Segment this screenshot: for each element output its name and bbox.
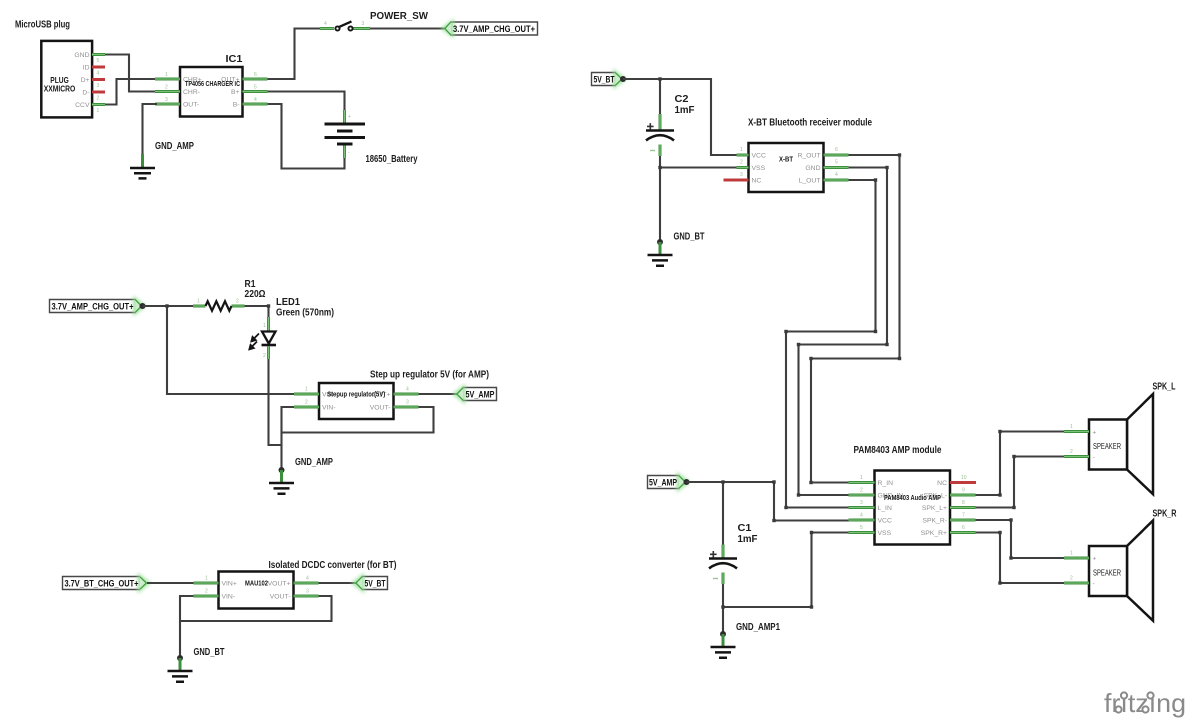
wire PAM SPK_R+ to SPK_R minus	[976, 533, 1065, 584]
wire 5V_BT to X-BT VCC	[623, 79, 737, 155]
wire IC1.OUT+ to POWER_SW	[268, 29, 321, 80]
svg-text:6: 6	[835, 147, 838, 153]
SPK_L pin numbers	[1070, 424, 1073, 455]
ground GND_BT (bottom left)	[168, 658, 193, 682]
wire U2.VOUT- return to ground	[282, 407, 434, 433]
svg-text:OUT-: OUT-	[183, 101, 199, 108]
svg-text:SPK_R-: SPK_R-	[922, 518, 947, 525]
wire 5V_AMP to PAM VCC	[687, 482, 849, 521]
svg-text:SPK_L: SPK_L	[1153, 382, 1176, 393]
junction nub	[658, 77, 661, 80]
svg-text:-: -	[348, 150, 350, 156]
DCDC module U3 MAU102 body	[219, 572, 294, 609]
svg-text:1: 1	[305, 387, 308, 393]
svg-text:+: +	[1093, 430, 1097, 437]
svg-text:1: 1	[97, 108, 100, 114]
svg-text:3: 3	[306, 589, 309, 595]
svg-text:3: 3	[362, 21, 365, 27]
svg-text:5V_BT: 5V_BT	[365, 579, 386, 590]
junction dot GND_BT (under C2)	[657, 239, 663, 245]
svg-text:2: 2	[165, 84, 168, 90]
svg-text:4: 4	[254, 97, 257, 103]
svg-text:1: 1	[165, 72, 168, 78]
U3 pins	[194, 583, 319, 596]
svg-text:B+: B+	[231, 89, 240, 96]
J1 pin names	[74, 52, 90, 109]
corner nub	[267, 304, 270, 307]
LED LED1	[262, 317, 277, 359]
svg-text:TP4056 CHARGER IC: TP4056 CHARGER IC	[185, 79, 240, 88]
U5 unconnected pin NC	[950, 481, 976, 484]
svg-text:1: 1	[263, 323, 266, 329]
svg-text:3.7V_AMP_CHG_OUT+: 3.7V_AMP_CHG_OUT+	[52, 302, 134, 313]
junction nub	[658, 166, 661, 169]
wire U2.OUT+ to 5V_AMP flag	[419, 393, 458, 395]
svg-text:4: 4	[835, 172, 838, 178]
wire flag to U3.VIN+	[147, 582, 194, 584]
svg-text:2: 2	[97, 96, 100, 102]
svg-text:2: 2	[1070, 449, 1073, 455]
svg-text:5: 5	[835, 160, 838, 166]
svg-text:1mF: 1mF	[675, 105, 695, 116]
svg-text:C2: C2	[675, 94, 689, 105]
battery pin numbers	[348, 114, 351, 156]
SPK_R pin numbers	[1070, 551, 1073, 582]
svg-text:X-BT Bluetooth receiver module: X-BT Bluetooth receiver module	[748, 118, 872, 129]
svg-text:GND_AMP: GND_AMP	[155, 141, 194, 152]
capacitor C2 1mF (polarized)	[646, 114, 674, 156]
svg-text:L_OUT: L_OUT	[799, 177, 821, 184]
svg-text:Isolated DCDC converter (for B: Isolated DCDC converter (for BT)	[269, 560, 397, 571]
svg-text:-: -	[1093, 581, 1095, 588]
net flag 3.7V_AMP_CHG_OUT+ (left)	[50, 296, 147, 317]
svg-text:POWER_SW: POWER_SW	[370, 11, 429, 22]
svg-text:-: -	[1093, 454, 1095, 461]
svg-text:VOUT-: VOUT-	[270, 593, 291, 600]
svg-text:GND: GND	[74, 52, 89, 59]
svg-text:MicroUSB plug: MicroUSB plug	[15, 20, 70, 31]
wire J1.CCV to IC1.CHR+	[105, 79, 155, 105]
U5 pin names	[878, 480, 948, 537]
wire PAM SPK_L+ to SPK_L minus	[976, 457, 1065, 508]
wire X-BT GND to PAM GND_IN	[799, 168, 888, 496]
battery 18650_Battery	[325, 110, 366, 158]
svg-text:XXMICRO: XXMICRO	[44, 85, 76, 94]
svg-text:R_OUT: R_OUT	[797, 152, 820, 159]
svg-text:VCC: VCC	[878, 518, 892, 525]
J1 connected pins GND, CCV	[92, 55, 105, 105]
svg-text:2: 2	[236, 299, 239, 305]
wire PAM SPK_L- to SPK_L plus	[976, 432, 1065, 496]
wire C2 to ground	[659, 156, 661, 240]
svg-text:5: 5	[97, 58, 100, 64]
IC IC1 TP4056 charger body	[180, 67, 243, 117]
wire branch to regulator VIN+	[167, 306, 294, 394]
svg-text:5V_BT: 5V_BT	[594, 75, 615, 86]
svg-text:VCC: VCC	[752, 152, 766, 159]
svg-text:3: 3	[406, 400, 409, 406]
ground GND_AMP1	[711, 634, 736, 658]
module U5 PAM8403 body	[875, 471, 951, 545]
U3 pin names	[222, 580, 291, 600]
regulator U2 body	[319, 383, 394, 419]
svg-text:6: 6	[962, 525, 965, 531]
svg-text:5V_AMP: 5V_AMP	[466, 390, 496, 401]
svg-text:VIN-: VIN-	[222, 593, 236, 600]
svg-text:SPK_L+: SPK_L+	[922, 505, 947, 512]
net flag 3.7V_BT_CHG_OUT+	[63, 573, 152, 594]
svg-text:R_IN: R_IN	[878, 480, 894, 487]
svg-text:4: 4	[97, 71, 100, 77]
U4 pin names	[752, 152, 821, 184]
IC1 pins	[155, 79, 268, 104]
svg-text:VOUT+: VOUT+	[268, 580, 291, 587]
wire R1 to LED1 anode	[245, 306, 269, 318]
wire J1.GND to IC1.CHR-	[105, 55, 155, 92]
wire U3.VOUT+ to 5V_BT flag	[319, 582, 357, 584]
wire branch to C1	[722, 482, 724, 545]
net flag 5V_BT (bottom)	[351, 573, 388, 594]
junction nub	[721, 480, 724, 483]
wire flag to R1	[143, 305, 194, 307]
ground GND_BT (under C2)	[648, 242, 673, 266]
U4 pin numbers	[740, 147, 838, 178]
U2 pin numbers	[305, 387, 409, 406]
J1 unconnected pins ID, D+, D-	[92, 67, 105, 92]
IC1 pin names	[183, 76, 240, 108]
net flag 5V_AMP (left)	[648, 472, 691, 493]
resistor R1	[193, 301, 245, 310]
U2 pin names	[322, 391, 391, 411]
svg-text:VIN-: VIN-	[322, 404, 336, 411]
svg-text:D+: D+	[81, 77, 90, 84]
svg-text:GND_BT: GND_BT	[194, 647, 225, 658]
svg-text:B-: B-	[233, 101, 240, 108]
junction dot at 3.7V_AMP_CHG_OUT+ flag	[140, 303, 146, 309]
U4 pins	[737, 155, 849, 180]
wire IC1.OUT- to ground	[143, 104, 158, 155]
wire U3.VOUT- return to ground	[180, 596, 332, 621]
svg-text:+: +	[348, 114, 351, 120]
LED1 light arrows	[249, 334, 259, 350]
svg-text:SPEAKER: SPEAKER	[1093, 442, 1121, 451]
junction nubs	[721, 605, 724, 608]
J1 pin numbers	[97, 58, 100, 114]
svg-text:3: 3	[860, 500, 863, 506]
wire U3.VIN- to ground	[180, 596, 194, 656]
svg-text:1mF: 1mF	[738, 534, 758, 545]
svg-text:4: 4	[324, 21, 327, 27]
IC1 pin numbers	[165, 72, 257, 103]
junction dot GND_AMP	[279, 467, 285, 473]
svg-text:SPEAKER: SPEAKER	[1093, 569, 1121, 578]
junction nub	[165, 304, 168, 307]
wire X-BT R_OUT to PAM R_IN	[811, 155, 900, 483]
wire LED1 cathode to ground junction	[269, 359, 282, 445]
U5 pin numbers	[860, 475, 967, 531]
svg-text:PAM8403 AMP module: PAM8403 AMP module	[854, 445, 942, 456]
svg-text:GND_AMP1: GND_AMP1	[736, 622, 780, 633]
svg-text:7: 7	[962, 513, 965, 519]
fritzing logo	[1104, 688, 1186, 718]
net flag 3.7V_AMP_CHG_OUT+ (top right)	[441, 19, 538, 39]
svg-text:5: 5	[254, 84, 257, 90]
svg-text:1: 1	[740, 147, 743, 153]
svg-text:6: 6	[254, 72, 257, 78]
wire X-BT L_OUT to PAM L_IN	[786, 180, 876, 508]
svg-text:2: 2	[263, 353, 266, 359]
speaker SPK_L	[1064, 394, 1153, 494]
svg-text:GND_AMP: GND_AMP	[295, 457, 333, 468]
junction dot GND_AMP1	[720, 631, 726, 637]
svg-text:4: 4	[406, 387, 409, 393]
svg-text:SPK_R+: SPK_R+	[921, 530, 947, 537]
svg-text:1: 1	[205, 576, 208, 582]
svg-text:18650_Battery: 18650_Battery	[366, 154, 418, 165]
wire corner nubs	[784, 153, 901, 509]
svg-text:2: 2	[740, 160, 743, 166]
svg-text:NC: NC	[752, 177, 762, 184]
svg-text:Stepup regulator(5V): Stepup regulator(5V)	[327, 390, 385, 399]
svg-text:2: 2	[860, 488, 863, 494]
wire IC1.B+ to battery plus	[268, 92, 345, 112]
svg-text:GND_BT: GND_BT	[674, 232, 705, 243]
svg-text:9: 9	[962, 488, 965, 494]
svg-text:1: 1	[197, 299, 200, 305]
net flag 5V_BT (top)	[592, 69, 628, 90]
junction dot 5V_AMP	[684, 479, 690, 485]
wire corner nubs	[772, 480, 775, 483]
wire C1 tee to PAM VSS	[723, 533, 849, 608]
wire C2 tee to X-BT VSS	[660, 166, 737, 168]
svg-text:3: 3	[740, 172, 743, 178]
wire IC1.B- to battery minus	[268, 104, 345, 169]
POWER_SW pin numbers	[324, 21, 365, 27]
svg-text:3: 3	[97, 83, 100, 89]
svg-text:1: 1	[1070, 551, 1073, 557]
junction dot GND_BT	[177, 655, 183, 661]
svg-text:Green (570nm): Green (570nm)	[276, 308, 334, 319]
svg-text:1: 1	[1070, 424, 1073, 430]
svg-text:4: 4	[860, 513, 863, 519]
module U4 X-BT body	[749, 143, 824, 192]
svg-text:SPK_R: SPK_R	[1153, 509, 1178, 520]
svg-text:VSS: VSS	[752, 165, 766, 172]
svg-text:LED1: LED1	[276, 297, 300, 308]
svg-text:Step up regulator 5V (for AMP): Step up regulator 5V (for AMP)	[370, 370, 489, 381]
svg-text:C1: C1	[738, 523, 752, 534]
svg-text:VSS: VSS	[878, 530, 892, 537]
wire POWER_SW to 3.7V_AMP_CHG_OUT+ flag	[370, 27, 445, 29]
svg-text:CHR-: CHR-	[183, 89, 200, 96]
svg-text:CCV: CCV	[75, 102, 90, 109]
svg-text:L_IN: L_IN	[878, 505, 892, 512]
wire C1 to ground	[722, 584, 724, 632]
capacitor C1 1mF (polarized)	[709, 545, 737, 585]
svg-text:8: 8	[962, 500, 965, 506]
U3 pin numbers	[205, 576, 309, 595]
svg-text:3.7V_AMP_CHG_OUT+: 3.7V_AMP_CHG_OUT+	[453, 24, 535, 35]
svg-text:10: 10	[961, 475, 967, 481]
U4 unconnected pin NC	[724, 179, 749, 182]
connector J1 MicroUSB plug body	[41, 41, 92, 118]
svg-text:3: 3	[165, 97, 168, 103]
svg-text:D-: D-	[82, 90, 89, 97]
svg-text:1: 1	[860, 475, 863, 481]
svg-text:MAU102: MAU102	[245, 579, 268, 588]
wire U2.VIN- to ground	[282, 407, 295, 468]
LED1 pin numbers	[263, 323, 266, 359]
wire branch to C2	[659, 79, 661, 115]
svg-text:VOUT-: VOUT-	[370, 404, 391, 411]
net flag 5V_AMP (right of U2)	[452, 384, 497, 405]
svg-text:2: 2	[305, 400, 308, 406]
wire corner nubs	[998, 430, 1015, 585]
switch POWER_SW	[320, 21, 370, 30]
svg-text:PAM8403 Audio AMP: PAM8403 Audio AMP	[884, 493, 941, 502]
speaker SPK_R	[1064, 521, 1153, 621]
ground (GND_AMP under IC1)	[130, 154, 155, 178]
svg-text:VIN+: VIN+	[222, 580, 237, 587]
wire PAM SPK_R- to SPK_R plus	[976, 520, 1065, 558]
svg-text:3.7V_BT_CHG_OUT+: 3.7V_BT_CHG_OUT+	[65, 579, 139, 590]
svg-text:2: 2	[1070, 576, 1073, 582]
svg-text:220Ω: 220Ω	[245, 289, 266, 300]
U5 pins	[849, 483, 976, 533]
svg-text:NC: NC	[937, 480, 947, 487]
svg-text:GND: GND	[805, 165, 820, 172]
junction dot 5V_BT	[620, 76, 626, 82]
svg-text:X-BT: X-BT	[779, 157, 794, 164]
R1 pin numbers	[197, 299, 239, 305]
svg-text:5: 5	[860, 525, 863, 531]
svg-text:2: 2	[205, 589, 208, 595]
svg-text:ID: ID	[83, 65, 90, 72]
svg-text:+: +	[1093, 556, 1097, 563]
svg-text:5V_AMP: 5V_AMP	[649, 478, 677, 489]
svg-text:4: 4	[306, 576, 309, 582]
U2 pins	[294, 394, 419, 407]
ground GND_AMP (center)	[269, 470, 294, 494]
svg-text:IC1: IC1	[226, 54, 243, 65]
